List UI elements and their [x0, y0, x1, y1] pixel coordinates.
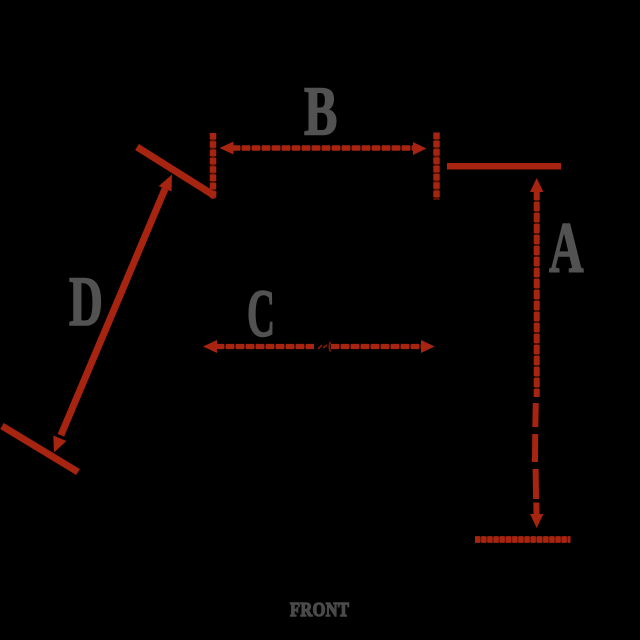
dimension line A underlay: [534, 191, 539, 397]
dimension line D: [61, 189, 165, 435]
arrowhead B left: [220, 142, 234, 155]
arrowhead C left: [203, 340, 217, 353]
extension tick top of dimension D: [137, 147, 215, 196]
dimension line B: [232, 145, 415, 151]
dimension line C right segment underlay: [331, 345, 422, 349]
dimension line B underlay: [232, 146, 415, 150]
dimension line C right segment: [331, 344, 422, 349]
dimension line A: [534, 191, 540, 397]
dimension line C left segment: [216, 344, 314, 349]
arrowhead A bottom: [530, 514, 543, 528]
arrowhead D bottom: [53, 436, 66, 453]
svg-text:C: C: [247, 276, 275, 351]
extension tick left of dimension B underlay: [211, 133, 216, 199]
svg-text:D: D: [69, 262, 103, 341]
svg-text:B: B: [304, 74, 337, 151]
dimension line A lower segment: [535, 403, 537, 514]
svg-text:FRONT: FRONT: [290, 599, 349, 621]
dimension line C left segment underlay: [216, 345, 314, 349]
extension tick right of dimension B: [433, 133, 440, 200]
small watermark marks mid dimension C: [318, 342, 331, 352]
shoulder reference line top right: [447, 163, 561, 170]
extension tick left of dimension B: [210, 133, 217, 199]
arrowhead C right: [421, 340, 435, 353]
extension tick bottom of dimension D: [2, 426, 78, 472]
arrowhead A top: [530, 178, 543, 192]
arrowhead B right: [413, 142, 427, 155]
hem reference line bottom right: [475, 536, 571, 543]
hem reference line bottom right underlay: [475, 537, 571, 542]
svg-text:A: A: [549, 208, 584, 288]
arrowhead D top: [159, 175, 172, 192]
extension tick right of dimension B underlay: [434, 133, 439, 200]
